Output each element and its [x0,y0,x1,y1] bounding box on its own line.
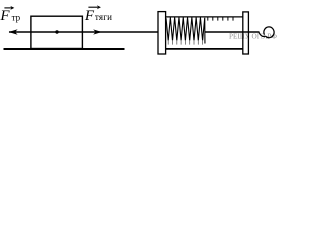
ground [4,48,125,50]
spring coil tails [168,40,202,45]
rod [205,31,260,33]
scale ticks [208,17,233,21]
dynamometer left plate [158,12,166,54]
dynamometer bottom rail [166,48,243,50]
wire main horizontal line [9,31,158,33]
svg-text:РЕШУ ОГЭ.РФ: РЕШУ ОГЭ.РФ [229,32,277,40]
spring [166,18,205,44]
dynamometer right plate [243,12,249,54]
vector hat over F_tyagi [88,6,98,8]
svg-text:тр: тр [12,13,21,23]
vector hat over F_tr [4,7,11,9]
hook connector curl [259,32,265,37]
arrowhead F_tr left [9,29,18,34]
hook ring [264,27,274,38]
svg-text:F: F [84,8,95,24]
node center dot [55,30,58,33]
svg-text:тяги: тяги [95,12,112,22]
svg-text:F: F [0,8,10,24]
arrowhead F_tyagi right [93,29,102,34]
dynamometer top rail [166,16,243,18]
block (brusok) [31,16,83,48]
